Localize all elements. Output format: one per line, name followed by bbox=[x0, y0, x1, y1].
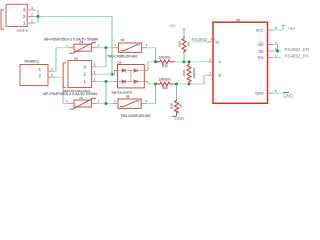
wire D4 TR riser to A row bbox=[147, 62, 149, 71]
pin RO stub bbox=[268, 57, 274, 59]
resistor R18 bbox=[187, 62, 191, 84]
node RE-DE bbox=[276, 50, 279, 53]
IC U5 box bbox=[213, 22, 268, 103]
fuse F3 bbox=[70, 43, 97, 54]
svg-text:R22: R22 bbox=[178, 41, 182, 47]
ground symbol right bbox=[283, 91, 289, 93]
svg-text:1K: 1K bbox=[187, 42, 191, 46]
wire RS485-1 pin1 to F3 bbox=[55, 70, 57, 72]
svg-text:R21: R21 bbox=[162, 64, 168, 68]
D5 pin stubs bbox=[113, 103, 147, 105]
pin A stub bbox=[208, 61, 214, 63]
svg-text:GND: GND bbox=[174, 116, 185, 121]
U9 pin stubs bbox=[92, 67, 97, 82]
node junction at U9 pin2 bbox=[111, 73, 114, 76]
connector J1 top-left bbox=[6, 4, 27, 26]
wire vertical to D4 bbox=[111, 17, 113, 75]
resistor R22 bbox=[182, 37, 186, 54]
svg-text:D6: D6 bbox=[121, 38, 125, 42]
connector bracket (cropped) left edge bbox=[1, 10, 4, 29]
resistor R19 bbox=[175, 100, 179, 116]
connector J1 pin numbers bbox=[31, 6, 33, 23]
connector U9 bracket bbox=[63, 63, 66, 88]
pin B stub bbox=[208, 74, 214, 76]
svg-text:U5: U5 bbox=[236, 18, 240, 22]
wire tie J1 pins bbox=[37, 10, 39, 23]
wire U9 pin1 to D4 BL bbox=[97, 81, 118, 83]
svg-text:+5V: +5V bbox=[169, 23, 176, 28]
fuse F3 pin stubs bbox=[69, 47, 98, 49]
connector RS485-1 bbox=[20, 65, 48, 86]
svg-text:DI: DI bbox=[216, 40, 220, 44]
node R18 top bbox=[188, 60, 191, 63]
svg-text:RO: RO bbox=[258, 56, 264, 60]
wire x106 down to F4 row bbox=[105, 82, 107, 104]
svg-text:F4: F4 bbox=[80, 96, 84, 100]
svg-text:MF-PSMF050X-2 0.5A 6V 500MA: MF-PSMF050X-2 0.5A 6V 500MA bbox=[43, 92, 98, 96]
wire D4 BR drop to B row bbox=[147, 82, 149, 85]
node F4 out bbox=[105, 102, 108, 105]
svg-text:RS485-1: RS485-1 bbox=[25, 59, 40, 63]
D4 internal diodes bbox=[118, 71, 145, 82]
+5V supply left symbol bbox=[182, 29, 185, 37]
wire U9 pin2 to node bbox=[97, 73, 113, 75]
connector U9 bbox=[68, 61, 92, 88]
wire GND bbox=[274, 92, 284, 94]
RS485-1 pin stubs bbox=[48, 71, 55, 77]
resistor R21 bbox=[156, 60, 175, 64]
svg-text:100ohm: 100ohm bbox=[159, 77, 171, 81]
node R22 tap bbox=[183, 60, 186, 63]
TBU D6 bbox=[119, 43, 142, 52]
svg-text:RE: RE bbox=[258, 43, 264, 47]
+5V supply right symbol bbox=[281, 26, 284, 31]
svg-text:MF-PSMF050X-2 0.5A 6V 500MA: MF-PSMF050X-2 0.5A 6V 500MA bbox=[44, 37, 99, 41]
resistor R20 bbox=[156, 82, 175, 86]
node A-row D6 drop bbox=[154, 60, 157, 63]
svg-text:RS4852_EN: RS4852_EN bbox=[285, 47, 309, 52]
node R19 tap bbox=[175, 83, 178, 86]
svg-text:DE: DE bbox=[258, 49, 264, 53]
node R18 bottom bbox=[188, 83, 191, 86]
D6 pin stubs bbox=[113, 47, 148, 49]
pin GND stub bbox=[268, 92, 274, 94]
svg-text:+5V: +5V bbox=[288, 26, 296, 31]
wire drop from F3-out node to U9 pin3 bbox=[105, 48, 107, 67]
node junction J1 bbox=[37, 15, 40, 18]
connector J1 pins bbox=[28, 10, 36, 23]
ground symbol bottom bbox=[172, 115, 177, 117]
pin RE stub bbox=[268, 44, 274, 46]
fuse F4 bbox=[70, 98, 97, 109]
wire D6 out down to A row bbox=[148, 47, 156, 49]
wire top horizontal bbox=[36, 16, 112, 18]
fuse F4 pin stubs bbox=[69, 103, 98, 105]
wire jog to D4 TL bbox=[112, 71, 118, 75]
svg-text:R18: R18 bbox=[182, 70, 186, 76]
svg-text:F3: F3 bbox=[80, 40, 84, 44]
TBU D5 bbox=[118, 99, 141, 108]
wire B row to riser bbox=[175, 83, 205, 85]
wire F4 out to D5 bbox=[97, 103, 113, 105]
node F3 out bbox=[105, 46, 108, 49]
svg-text:R20: R20 bbox=[162, 86, 168, 90]
D4 pin stubs bbox=[114, 71, 148, 82]
node B-row D5 rise bbox=[154, 83, 157, 86]
wire RS485-1 pin2 to F4 bbox=[55, 76, 64, 78]
svg-text:RS4852_TX: RS4852_TX bbox=[192, 37, 216, 42]
wire DI bbox=[192, 41, 208, 43]
svg-text:GND: GND bbox=[255, 92, 264, 96]
wire VCC to +5V bbox=[274, 29, 284, 31]
svg-text:VCC: VCC bbox=[256, 28, 264, 32]
wire F3 out to D6 bbox=[97, 47, 113, 49]
node on pin1 row bbox=[105, 80, 108, 83]
svg-text:RS4852_RX: RS4852_RX bbox=[285, 54, 309, 59]
pin DE stub bbox=[268, 50, 274, 52]
wire B riser to pin7 bbox=[203, 75, 205, 84]
connector J1 pad numbers bbox=[23, 8, 26, 26]
wire RO out bbox=[274, 57, 282, 59]
wire RE-DE join bbox=[274, 44, 278, 46]
pin DI stub bbox=[208, 41, 214, 43]
TVS array D4 bbox=[118, 65, 145, 88]
svg-text:D4: D4 bbox=[118, 60, 122, 64]
svg-text:100ohm: 100ohm bbox=[159, 55, 171, 59]
pin VCC stub bbox=[268, 29, 274, 31]
svg-text:120ohm: 120ohm bbox=[192, 67, 196, 78]
wire R22 to A row bbox=[183, 53, 185, 62]
svg-text:U9: U9 bbox=[74, 56, 78, 60]
svg-text:TBU-CA065-200-WH: TBU-CA065-200-WH bbox=[121, 114, 152, 118]
svg-text:GX16-3: GX16-3 bbox=[17, 28, 29, 32]
svg-text:D5: D5 bbox=[126, 94, 130, 98]
svg-text:TBU-CA065-200-WH: TBU-CA065-200-WH bbox=[107, 55, 138, 59]
svg-text:GND: GND bbox=[283, 94, 294, 99]
wire R19 tap down bbox=[176, 84, 178, 100]
wire A row to IC bbox=[175, 61, 208, 63]
svg-text:R19: R19 bbox=[170, 103, 174, 109]
svg-text:1K: 1K bbox=[179, 104, 183, 108]
wire D5 out up to B row bbox=[147, 103, 156, 105]
